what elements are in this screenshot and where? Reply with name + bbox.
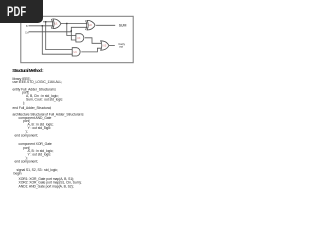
- wire AND1 out to OR: [85, 38, 101, 44]
- wire Carry output: [109, 44, 115, 46]
- wire S1 from XOR1 to XOR2: [61, 23, 87, 25]
- svg-text:use IEEE.STD_LOGIC_1164.ALL;: use IEEE.STD_LOGIC_1164.ALL;: [13, 80, 63, 84]
- svg-text:Structural Method :: Structural Method :: [12, 68, 44, 73]
- wire input Cin horizontal: [29, 31, 72, 33]
- or gate OR1: [101, 41, 109, 50]
- wire input B: [29, 25, 54, 27]
- xor gate XOR2: [86, 20, 96, 30]
- wire AND2 out to OR: [81, 48, 101, 52]
- svg-text:end component;: end component;: [15, 134, 39, 138]
- svg-text:Y : out std_logic: Y : out std_logic: [28, 153, 51, 157]
- wire Cin drop to AND1: [71, 32, 76, 40]
- PDF badge: [0, 0, 43, 23]
- and gate AND2: [72, 48, 80, 56]
- node junction B: [42, 25, 43, 26]
- svg-text:begin: begin: [14, 172, 22, 176]
- wire B drop to AND2: [42, 26, 72, 54]
- svg-text:end component;: end component;: [15, 160, 39, 164]
- svg-text:);: );: [23, 101, 25, 105]
- wire A drop to AND2: [46, 22, 72, 50]
- svg-text:end Full_Adder_Structural;: end Full_Adder_Structural;: [13, 106, 52, 110]
- node junction S1: [66, 23, 67, 24]
- svg-text:Sum, Cout : out std_logic: Sum, Cout : out std_logic: [26, 97, 63, 101]
- svg-text:AND1: AND_Gate port map(A, B,: AND1: AND_Gate port map(A, B, S2);: [19, 184, 74, 188]
- wire S1 drop to AND1: [67, 24, 76, 36]
- svg-text:SUM: SUM: [119, 23, 127, 27]
- and gate AND1: [76, 34, 84, 42]
- svg-text:B: B: [26, 25, 28, 28]
- wire SUM output: [96, 24, 115, 26]
- wire Cin up-jog to XOR2: [71, 27, 87, 32]
- svg-text:out: out: [119, 44, 123, 48]
- svg-text:entity Full_Adder_Structural i: entity Full_Adder_Structural is: [13, 87, 57, 91]
- node junction Cin: [71, 30, 72, 31]
- schematic frame: [21, 16, 133, 62]
- node junction A: [45, 21, 46, 22]
- full-adder schematic: [0, 0, 149, 198]
- xor gate XOR1: [51, 19, 61, 29]
- wire input A: [43, 21, 53, 23]
- svg-text:signal S1, S2, S3 : std_logic;: signal S1, S2, S3 : std_logic;: [17, 168, 58, 172]
- svg-text:Y : out std_logic: Y : out std_logic: [28, 126, 51, 130]
